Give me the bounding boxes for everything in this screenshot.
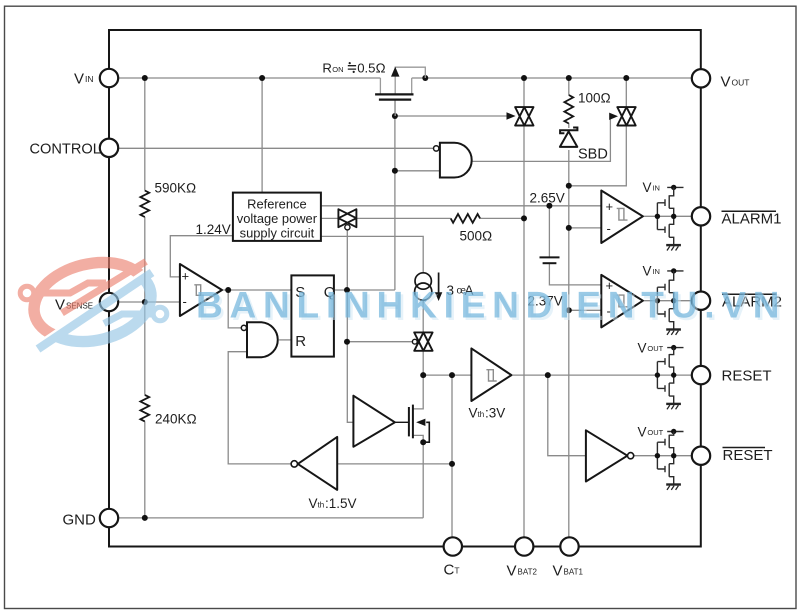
ALARM2 supply junction xyxy=(671,268,676,273)
junction Q1 gate / S1 control xyxy=(392,113,398,119)
ground symbol under RESETB stage xyxy=(666,485,681,490)
ground symbol under RESET stage xyxy=(666,404,681,409)
wire 1.24V reference to comparator U1 + input xyxy=(170,236,233,277)
wire CT column from comparator row to CT pin xyxy=(451,375,453,537)
switch S3 control bubble xyxy=(345,225,350,230)
svg-text:voltage power: voltage power xyxy=(237,211,318,226)
svg-text:+: + xyxy=(182,269,190,284)
transistor pair ALARM1 (PMOS/NMOS) xyxy=(657,187,673,245)
label Vth:1.5V xyxy=(309,496,357,511)
transistor pair RESETB (PMOS/NMOS) xyxy=(657,432,673,485)
svg-text:C: C xyxy=(444,562,455,579)
ALARM1 output node junction xyxy=(671,214,676,219)
ALARM1 supply junction xyxy=(671,185,676,190)
svg-text:240KΩ: 240KΩ xyxy=(155,412,197,427)
comparator U5 (2.65V vs VBAT1) xyxy=(601,191,643,244)
comparator U8 Vth 3V xyxy=(471,348,511,401)
junction divider bottom / GND rail xyxy=(142,515,148,521)
SR latch U4 xyxy=(291,275,334,356)
schottky diode SBD xyxy=(560,128,578,147)
svg-text::3V: :3V xyxy=(485,405,505,420)
wire RESET signal branch down to inverter U9 xyxy=(548,375,586,456)
svg-text:V: V xyxy=(643,263,652,278)
svg-text:V: V xyxy=(643,180,652,195)
junction VIN rail / reference supply drop xyxy=(259,75,265,81)
RESET supply rail VOUT stub xyxy=(667,347,683,349)
svg-text:1.24V: 1.24V xyxy=(196,222,231,237)
wire NAND U2 output to switch S2 control arrow xyxy=(472,120,611,162)
junction switch control / S4 branch xyxy=(344,339,350,345)
junction divider tap / VSENSE wire xyxy=(142,299,148,305)
svg-text:V: V xyxy=(309,496,318,511)
pin ALARM1 xyxy=(692,207,710,225)
pin VSENSE xyxy=(100,293,118,311)
label 3 uA xyxy=(447,283,474,298)
wire switch S2 down and left to VBAT1 node xyxy=(569,125,627,186)
resistor R4 500 ohm xyxy=(451,214,480,223)
wire top rail from VIN pin to pass transistor source xyxy=(118,77,380,79)
wire 100 ohm resistor bottom to SBD xyxy=(568,123,570,128)
junction VIN rail / switch S1 column xyxy=(521,75,527,81)
svg-text:IN: IN xyxy=(652,184,660,193)
svg-text:V: V xyxy=(638,424,647,439)
wire control branch to switch S4 bubble xyxy=(347,341,412,343)
svg-text:T: T xyxy=(454,565,459,575)
svg-text:R: R xyxy=(295,333,306,350)
inverter U7 Vth 1.5V (points left) xyxy=(298,437,337,490)
wire VOUT rail drop through switch S2 xyxy=(625,78,627,108)
RESET output node junction xyxy=(671,372,676,377)
wire inverter U7 output up to NAND U3 lower input xyxy=(228,352,291,464)
svg-text:OUT: OUT xyxy=(647,428,663,437)
inverter U9 (RESETB driver) xyxy=(586,430,628,481)
U1 hysteresis glyph xyxy=(194,285,204,296)
svg-text:V: V xyxy=(74,71,84,88)
U9 output bubble xyxy=(628,453,634,459)
resistor R1 590K xyxy=(140,191,149,218)
svg-text:V: V xyxy=(721,74,731,91)
svg-text:th: th xyxy=(318,500,325,509)
analog switch S3 xyxy=(338,209,356,227)
svg-text:ON: ON xyxy=(332,65,343,74)
svg-text:-: - xyxy=(183,294,187,309)
junction VIN rail / Q1 bulk tie xyxy=(422,75,428,81)
RESETB supply rail VOUT stub xyxy=(667,431,683,433)
current source I1 3uA xyxy=(415,273,439,301)
pin ALARM2 xyxy=(692,292,710,310)
svg-text:RESET: RESET xyxy=(723,447,773,464)
comparator U6 (2.37V vs VBAT1) xyxy=(601,275,643,328)
wire divider column lower to GND rail xyxy=(144,421,146,518)
wire reference output to 2.65V node and comparator U5 + input xyxy=(321,205,601,207)
wire MOSFET Q2 drain lead xyxy=(413,375,423,409)
junction CT column / U7 input xyxy=(449,461,455,467)
svg-text:OUT: OUT xyxy=(732,77,750,87)
svg-text:CONTROL: CONTROL xyxy=(30,142,101,158)
junction U1 output node xyxy=(225,287,231,293)
wire inverter U9 output to RESETB stage xyxy=(634,455,692,457)
svg-text:V: V xyxy=(469,405,478,420)
watermark text banlinhkiendientu.vn xyxy=(196,285,789,328)
ALARM2 supply rail VIN stub xyxy=(667,270,683,272)
svg-text:500Ω: 500Ω xyxy=(460,229,493,244)
NAND gate U3 (latch reset) xyxy=(247,322,278,357)
junction VIN rail / divider column xyxy=(142,75,148,81)
junction Q2 source / body tie xyxy=(420,439,426,445)
wire battery cell B1 to comparator U6 + input (2.37V) xyxy=(549,264,601,285)
wire latch Q output to gate column xyxy=(334,289,395,291)
junction VBAT1 column / U6 minus xyxy=(566,307,572,313)
svg-text:590KΩ: 590KΩ xyxy=(155,181,197,196)
svg-text:IN: IN xyxy=(652,267,660,276)
wire reference output into switch S3 xyxy=(321,217,338,219)
wire switch S3 control down from bubble xyxy=(347,230,353,422)
wire top rail from pass transistor drain to VOUT pin xyxy=(412,77,692,79)
ALARM1 supply rail VIN stub xyxy=(667,186,683,188)
transistor pair RESET (PMOS/NMOS) xyxy=(657,348,673,404)
wire VSENSE to comparator U1 inverting input xyxy=(118,301,180,303)
wire 100 ohm resistor top from VOUT rail xyxy=(568,78,570,95)
pin VBAT1 xyxy=(560,537,578,555)
svg-text:SBD: SBD xyxy=(578,147,608,163)
switch S1 control arrowhead xyxy=(507,112,516,119)
battery cell B1 (2.65V to 2.37V offset) xyxy=(540,257,560,263)
U5 hysteresis glyph xyxy=(617,208,628,220)
wire VBAT1 column from SBD junction to VBAT1 pin xyxy=(568,150,570,537)
wire comparator U5 output to ALARM1 stage xyxy=(643,215,692,217)
wire CT node row to comparator U8 input xyxy=(423,374,471,376)
wire gate column Q up to pass transistor gate xyxy=(394,101,396,290)
svg-text:R: R xyxy=(322,61,332,76)
svg-text:+: + xyxy=(606,199,614,214)
junction VOUT rail / switch S2 column xyxy=(623,75,629,81)
wire VBAT2 column from switch S1 to VBAT2 pin xyxy=(523,125,525,538)
wire comparator U1 output to latch S input xyxy=(222,289,291,291)
wire CONTROL to NAND U2 input xyxy=(118,147,433,149)
svg-text:th: th xyxy=(478,410,485,419)
switch S2 control arrowhead xyxy=(609,113,618,120)
wire comparator U8 output to RESET stage xyxy=(511,374,691,376)
wire gate node to NAND U2 lower input xyxy=(395,170,440,172)
pin VIN xyxy=(100,69,118,87)
wire GND rail xyxy=(118,517,423,519)
svg-text:V: V xyxy=(553,563,563,580)
wire switch S4 to comparator U8 input row xyxy=(422,350,424,375)
junction latch Q / switch control column xyxy=(344,287,350,293)
wire current source to switch S4 xyxy=(422,300,424,333)
wire VBAT1 node to comparator U5 - input xyxy=(569,227,602,229)
junction RESET signal / U9 branch xyxy=(545,372,551,378)
ground symbol under ALARM2 stage xyxy=(666,330,681,335)
ALARM1 gate node junction xyxy=(655,214,660,219)
ground symbol under ALARM1 stage xyxy=(666,245,681,250)
wire MOSFET Q2 source lead to GND rail xyxy=(413,435,423,518)
pass transistor Q1 (PMOS, RON 0.5 ohm) xyxy=(380,67,425,116)
label reference voltage power supply circuit xyxy=(237,196,318,240)
wire gate node to switch S1 control arrow xyxy=(395,115,509,117)
svg-text:Reference: Reference xyxy=(247,196,306,211)
wire comparator U6 output to ALARM2 stage xyxy=(643,300,692,302)
resistor R3 100 ohm xyxy=(564,95,573,124)
pin GND xyxy=(100,509,118,527)
wire VBAT1 node to comparator U6 - input xyxy=(569,309,602,311)
svg-text:supply circuit: supply circuit xyxy=(240,225,315,240)
svg-text:2.65V: 2.65V xyxy=(530,190,565,205)
svg-text:100Ω: 100Ω xyxy=(578,91,611,106)
junction VOUT rail / 100 ohm column xyxy=(566,75,572,81)
junction SBD / S2 / VBAT1 column xyxy=(566,183,572,189)
wire inverter U7 input to CT node xyxy=(337,463,452,465)
ALARM2 gate node junction xyxy=(655,298,660,303)
IC boundary box xyxy=(109,30,701,547)
wire VBAT2 column upper through switch S1 xyxy=(523,78,525,108)
svg-text:BAT2: BAT2 xyxy=(518,567,538,576)
analog switch S2 xyxy=(617,107,635,125)
pin CONTROL xyxy=(100,139,118,157)
svg-text:IN: IN xyxy=(85,74,94,84)
wire reference bias output to current source I1 xyxy=(321,236,423,273)
U8 hysteresis glyph xyxy=(486,370,496,381)
svg-text:0.5Ω: 0.5Ω xyxy=(357,61,385,76)
U7 output bubble xyxy=(291,461,297,467)
wire 590K/240K divider column upper xyxy=(144,78,146,191)
reference voltage power supply circuit box xyxy=(233,193,321,241)
RESET supply junction xyxy=(671,345,676,350)
junction CT node / S4 column xyxy=(420,372,426,378)
RESET gate node junction xyxy=(655,372,660,377)
pin RESET xyxy=(692,366,710,384)
svg-text:ALARM1: ALARM1 xyxy=(722,211,782,228)
transistor pair ALARM2 (PMOS/NMOS) xyxy=(657,271,673,329)
switch S4 control bubble xyxy=(412,339,417,344)
junction CT node / CT column xyxy=(449,372,455,378)
analog switch S1 xyxy=(515,107,533,125)
wire VIN rail drop to reference box xyxy=(261,78,263,193)
U6 hysteresis glyph xyxy=(617,295,628,307)
RESETB supply junction xyxy=(671,429,676,434)
svg-text:-: - xyxy=(607,221,611,236)
svg-text:V: V xyxy=(507,563,517,580)
U2 input bubble xyxy=(434,146,439,151)
svg-text:V: V xyxy=(638,340,647,355)
resistor R2 240K xyxy=(140,395,149,422)
junction 2.65V node xyxy=(546,203,552,209)
junction Q1 gate / NAND U2 input xyxy=(392,168,398,174)
comparator U1 (VSENSE vs 1.24V) xyxy=(180,264,222,316)
wire U1 output feedback down to NAND U3 input xyxy=(228,290,241,328)
svg-text:BAT1: BAT1 xyxy=(564,567,584,576)
junction VBAT1 column / U5 minus xyxy=(566,225,572,231)
wire 500 ohm resistor to VBAT2 column xyxy=(480,217,524,219)
svg-text:OUT: OUT xyxy=(647,344,663,353)
analog switch S4 xyxy=(414,332,432,350)
wire 2.65V node down to battery cell B1 xyxy=(548,206,550,257)
pin CT xyxy=(444,537,462,555)
label Vth:3V xyxy=(469,405,506,420)
pin VBAT2 xyxy=(515,537,533,555)
RESETB output node junction xyxy=(671,453,676,458)
svg-text::1.5V: :1.5V xyxy=(325,496,357,511)
wire NAND U3 output to latch R input xyxy=(279,339,291,341)
discharge MOSFET Q2 xyxy=(395,405,429,443)
svg-text:GND: GND xyxy=(63,512,97,529)
pin RESETB xyxy=(692,447,710,465)
pin VOUT xyxy=(692,69,710,87)
NAND gate U2 (CONTROL gating) xyxy=(440,143,472,178)
label RON approx 0.5 ohm xyxy=(322,61,385,76)
ALARM2 output node junction xyxy=(671,298,676,303)
U3 input bubble xyxy=(241,325,246,330)
buffer U10 (drives discharge MOSFET) xyxy=(353,396,395,447)
junction 500 ohm / VBAT2 column xyxy=(521,215,527,221)
svg-text:RESET: RESET xyxy=(722,367,772,384)
svg-text:BANLINHKIENDIENTU.VN: BANLINHKIENDIENTU.VN xyxy=(196,285,786,326)
RESETB gate node junction xyxy=(655,453,660,458)
wire divider column mid xyxy=(144,217,146,395)
wire switch S3 to 500 ohm resistor xyxy=(357,217,451,219)
